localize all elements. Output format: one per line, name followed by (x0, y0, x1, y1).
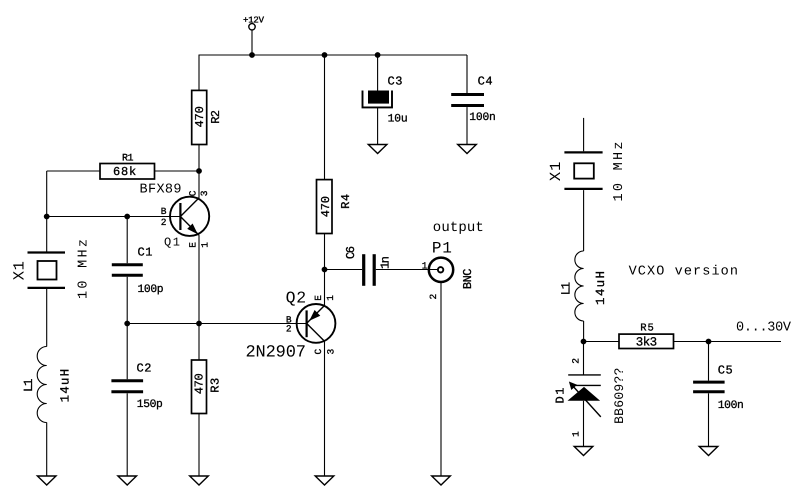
svg-text:1: 1 (325, 295, 336, 301)
wire X1 to L1 VCXO (583, 190, 585, 251)
crystal X1 (11, 239, 92, 299)
wire C1 to mid node (126, 277, 128, 324)
svg-text:R3: R3 (209, 378, 223, 393)
wire rail to C3 (377, 55, 379, 91)
svg-text:100p: 100p (138, 284, 164, 296)
ground under D1 (574, 447, 593, 456)
capacitor C5 (693, 364, 744, 413)
svg-text:D1: D1 (553, 388, 567, 404)
wire R3 to ground (198, 414, 200, 477)
node mid-R3 (196, 321, 202, 327)
node L1-R5-D1 (581, 339, 587, 345)
svg-text:Q2: Q2 (286, 288, 307, 307)
ground under R3 (190, 476, 209, 485)
svg-text:0...30V: 0...30V (736, 321, 792, 336)
wire D1 to ground (583, 401, 585, 447)
capacitor C6 (344, 246, 392, 286)
svg-text:470: 470 (193, 106, 207, 127)
inductor L1 (22, 347, 73, 423)
svg-text:C: C (188, 190, 199, 196)
wire left vertical to X1 (46, 171, 48, 252)
wire R2 to collector node (198, 145, 200, 172)
ground under C3 (368, 145, 387, 154)
wire C3 to ground (377, 107, 379, 144)
svg-text:3: 3 (325, 349, 336, 355)
svg-text:E: E (188, 242, 199, 248)
svg-text:R2: R2 (209, 110, 223, 124)
node R4-C6-Q2 (322, 267, 328, 273)
wire L1 to ground (46, 423, 48, 477)
wire emitter vertical (198, 235, 200, 323)
pin 2 B of Q2 (286, 315, 292, 335)
wire rail to R4 (324, 55, 326, 180)
svg-text:1: 1 (571, 431, 582, 437)
svg-text:10u: 10u (388, 113, 408, 125)
wire node to R5 (584, 341, 620, 343)
resistor R2 (192, 90, 224, 144)
svg-text:VCXO version: VCXO version (629, 264, 738, 279)
inductor L1 VCXO (559, 251, 608, 321)
wire R5 to right end (674, 341, 782, 343)
wire Q2 collector to ground (324, 341, 326, 476)
wire R4 to output node (324, 234, 326, 270)
capacitor C3 polarized (363, 75, 408, 126)
svg-text:1: 1 (422, 261, 428, 272)
svg-text:C1: C1 (138, 245, 153, 259)
capacitor C1 (112, 245, 164, 296)
ground under C4 (458, 145, 477, 154)
wire L1 to node (583, 321, 585, 342)
wire collector vertical (198, 171, 200, 198)
wire R1 right (155, 170, 200, 172)
svg-text:100n: 100n (469, 112, 496, 124)
power flag +12V (243, 15, 265, 30)
svg-text:2: 2 (428, 294, 439, 300)
svg-text:Q1: Q1 (164, 236, 180, 250)
svg-text:C5: C5 (718, 364, 733, 378)
transistor Q1 BFX89 (140, 182, 210, 249)
transistor Q2 2N2907 (246, 288, 336, 362)
node base-left (44, 214, 50, 220)
wire node to C6 (325, 269, 363, 271)
wire rail to R2 (198, 55, 200, 90)
svg-text:R4: R4 (339, 194, 353, 209)
pin 1 E of Q1 (188, 242, 211, 248)
ground under C5 (699, 447, 718, 456)
svg-text:X1: X1 (547, 162, 565, 182)
svg-text:BNC: BNC (461, 269, 475, 290)
svg-text:470: 470 (192, 373, 206, 394)
svg-text:BFX89: BFX89 (140, 182, 182, 197)
wire R1 left (47, 170, 100, 172)
pin 3 C of Q2 (313, 349, 336, 355)
diode D1 varactor BB609 (553, 368, 627, 424)
pin 2 B of Q1 (161, 206, 167, 228)
resistor R5 (619, 323, 674, 350)
wire base node to C1 (126, 217, 128, 264)
wire stub above right X1 (583, 118, 585, 151)
svg-text:C2: C2 (137, 362, 152, 376)
svg-text:E: E (313, 295, 324, 301)
svg-text:X1: X1 (11, 261, 29, 280)
wire P1 to ground (440, 282, 442, 476)
svg-text:R1: R1 (122, 154, 134, 165)
wire C4 to ground (466, 107, 468, 144)
capacitor C2 (111, 362, 163, 411)
svg-text:2: 2 (571, 358, 582, 364)
svg-text:B: B (161, 206, 167, 217)
node R5-C5 (706, 339, 712, 345)
wire rail corner to C4 (466, 55, 468, 93)
svg-text:470: 470 (319, 196, 333, 217)
pin 1 E of Q2 (313, 295, 336, 301)
svg-text:1: 1 (200, 242, 211, 248)
wire base net horizontal (47, 216, 181, 218)
svg-text:2N2907: 2N2907 (246, 344, 307, 363)
pin 3 C of Q1 (188, 190, 211, 196)
ground under P1 (432, 476, 451, 485)
wire X1 to L1 (46, 289, 48, 347)
svg-text:C3: C3 (388, 75, 403, 89)
svg-text:C: C (313, 349, 324, 355)
wire mid node to C2 (126, 324, 128, 380)
svg-text:68k: 68k (113, 165, 136, 179)
svg-text:14uH: 14uH (59, 369, 73, 403)
wire node to R3 (198, 324, 200, 361)
node rail-12V (249, 52, 255, 58)
svg-text:L1: L1 (559, 282, 573, 296)
svg-text:3k3: 3k3 (636, 335, 657, 349)
svg-text:2: 2 (286, 324, 292, 335)
node rail-R4 (322, 52, 328, 58)
svg-text:3: 3 (199, 190, 210, 196)
capacitor C4 (451, 75, 496, 125)
node mid-C2 (124, 321, 130, 327)
wire C6 to P1 (376, 269, 438, 271)
connector P1 BNC (429, 220, 484, 289)
wire C5 to ground (708, 393, 710, 446)
wire top rail (199, 54, 468, 56)
resistor R4 (317, 180, 353, 234)
wire node to D1 (583, 342, 585, 375)
svg-text:1n: 1n (378, 256, 392, 269)
svg-text:P1: P1 (432, 240, 452, 258)
svg-text:BB609??: BB609?? (612, 368, 627, 424)
wire Q2 emitter up (324, 270, 326, 306)
svg-text:C4: C4 (478, 75, 493, 89)
wire node to C5 (708, 342, 710, 381)
svg-text:R5: R5 (640, 323, 654, 335)
resistor R3 (192, 360, 223, 414)
svg-text:14uH: 14uH (594, 271, 608, 305)
crystal X1 VCXO (547, 142, 627, 202)
ground under Q2 (315, 476, 334, 485)
svg-text:2: 2 (161, 217, 167, 228)
svg-text:C6: C6 (344, 246, 358, 259)
wire +12V stub (251, 30, 253, 55)
svg-text:L1: L1 (22, 379, 36, 393)
node rail-C3 (375, 52, 381, 58)
svg-text:100n: 100n (718, 400, 744, 412)
node base-C1 (124, 214, 130, 220)
ground under L1 (37, 476, 56, 485)
wire C2 to ground (126, 393, 128, 476)
resistor R1 (100, 154, 155, 180)
svg-text:output: output (433, 220, 484, 236)
wire mid horizontal to Q2 base (127, 323, 306, 325)
ground under C2 (118, 476, 137, 485)
svg-text:+12V: +12V (243, 15, 265, 25)
svg-text:150p: 150p (137, 399, 163, 411)
node R1-R2-collector (196, 168, 202, 174)
